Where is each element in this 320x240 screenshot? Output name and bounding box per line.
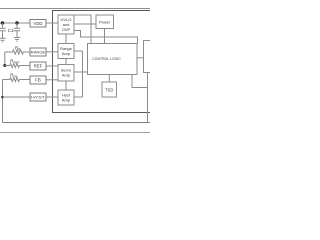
wire RANGE pin to Range Amp [46, 51, 58, 53]
ground (capacitor C1) [14, 38, 20, 42]
wire FB pin to Servo Amp [46, 79, 58, 81]
wire HYST tie to feedback net [3, 96, 31, 98]
wire UVLO top to control logic [74, 15, 91, 44]
wire TSD to control logic [108, 75, 110, 83]
pin box HYST [30, 93, 46, 101]
svg-text:FB: FB [35, 78, 41, 83]
resistor RFB [3, 78, 31, 82]
block Hyst Amp [58, 90, 74, 105]
wire VDD input rail [0, 22, 30, 24]
block Servo Amp [58, 65, 74, 82]
svg-text:Power: Power [99, 19, 111, 24]
block TSD [102, 82, 117, 97]
pin box REF [30, 62, 46, 70]
wire amp output rail [82, 51, 84, 97]
capacitor C1 [14, 23, 21, 38]
wire feedback net bottom [3, 122, 151, 124]
resistor RREF [5, 64, 30, 68]
wire Hyst Amp output [74, 96, 83, 98]
page rule bottom [0, 132, 150, 134]
wire control logic to output driver [137, 57, 144, 59]
wire Servo Amp output to control logic [74, 71, 88, 73]
node junction dot HYST tie [1, 96, 4, 99]
wire control logic bottom output [132, 75, 148, 88]
svg-text:CONTROL LOGIC: CONTROL LOGIC [92, 56, 121, 61]
block UVLO and OVP U1 [58, 15, 74, 34]
page rule top [0, 8, 150, 10]
wire output to feedback net [147, 73, 149, 123]
wire Power to control logic [104, 29, 106, 44]
svg-text:VDD: VDD [33, 21, 42, 26]
svg-text:Amp: Amp [62, 98, 71, 103]
wire Servo Amp to Hyst Amp [65, 81, 67, 90]
node junction dot right [15, 21, 18, 24]
svg-text:REF: REF [34, 64, 43, 69]
wire UVLO lower output [74, 31, 138, 44]
svg-text:Amp: Amp [62, 73, 71, 78]
wire UVLO to Range Amp [65, 34, 67, 44]
wire HYST pin to Hyst Amp [46, 96, 58, 98]
IC boundary outline [53, 11, 151, 113]
pin box VDD [30, 20, 46, 28]
wire VDD pin to UVLO [46, 22, 58, 24]
resistor RB [5, 50, 30, 54]
capacitor (left bypass) [0, 23, 6, 38]
svg-text:Amp: Amp [62, 51, 71, 56]
block Range Amp [58, 44, 74, 59]
wire Range Amp output [74, 50, 83, 52]
ground (left capacitor) [0, 38, 6, 42]
svg-text:HYST: HYST [31, 95, 45, 100]
svg-text:C1: C1 [8, 28, 14, 33]
svg-text:RANGE: RANGE [31, 50, 46, 55]
block Power [96, 15, 114, 29]
block CONTROL LOGIC [88, 44, 138, 75]
pin box RANGE [30, 48, 46, 56]
node junction dot REF branch [3, 64, 6, 67]
wire feedback net vertical [2, 80, 4, 123]
pin box FB [30, 76, 46, 84]
wire Range Amp to Servo Amp [65, 59, 67, 65]
node junction dot left [1, 21, 4, 24]
svg-text:OVP: OVP [62, 27, 71, 32]
svg-text:TSD: TSD [105, 88, 113, 93]
wire REF pin to Servo Amp [46, 65, 58, 67]
block output driver (cut off) [144, 41, 151, 73]
wire UVLO to Power [74, 23, 96, 25]
wire RB rail down [4, 52, 6, 66]
